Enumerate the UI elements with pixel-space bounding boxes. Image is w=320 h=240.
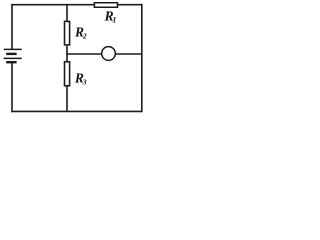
wire meter to right border	[116, 53, 142, 55]
wire top border right segment	[117, 4, 143, 6]
wire middle branch bottom	[66, 86, 68, 112]
wire top border left segment	[11, 4, 95, 6]
wire bottom border	[11, 110, 142, 112]
resistor R2 box	[65, 21, 70, 45]
svg-text:R2: R2	[74, 24, 87, 40]
wire right border	[141, 4, 143, 112]
battery cell2 long plate	[4, 57, 22, 59]
resistor R3 box	[65, 62, 70, 86]
wire middle branch top	[66, 4, 68, 22]
battery cell1 long plate	[4, 48, 22, 50]
battery cell2 short thick plate	[6, 61, 16, 63]
wire middle branch between R2 and R3	[66, 46, 68, 62]
battery cell1 short thick plate	[6, 53, 16, 55]
wire left border upper (to battery)	[11, 4, 13, 50]
meter circle	[102, 47, 116, 61]
wire left border lower (battery to bottom)	[11, 62, 13, 112]
resistor R1 box	[94, 3, 117, 8]
svg-text:R3: R3	[74, 70, 87, 86]
svg-text:R1: R1	[104, 8, 117, 24]
wire tee to meter	[66, 53, 101, 55]
